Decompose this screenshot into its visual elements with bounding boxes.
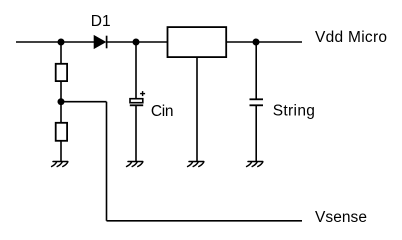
capacitor String bbox=[250, 99, 264, 105]
wire D1 cathode to regulator bbox=[107, 41, 168, 43]
svg-text:D1: D1 bbox=[91, 13, 111, 30]
svg-text:Vsense: Vsense bbox=[315, 209, 367, 226]
node junction divider top bbox=[58, 39, 65, 46]
wire regulator ground pin bbox=[196, 57, 198, 161]
resistor R2 bbox=[56, 123, 67, 141]
ground regulator bbox=[188, 162, 204, 167]
ground String bbox=[247, 162, 263, 167]
svg-text:Cin: Cin bbox=[151, 103, 173, 120]
diode D1 bbox=[94, 36, 106, 49]
capacitor Cin (polarized) bbox=[130, 91, 145, 105]
regulator U1 bbox=[168, 27, 227, 57]
svg-text:Vdd Micro: Vdd Micro bbox=[315, 29, 387, 46]
wire R2 to ground bbox=[60, 141, 62, 162]
svg-text:String: String bbox=[273, 103, 316, 120]
ground Cin bbox=[127, 162, 143, 167]
wire Cin to ground bbox=[135, 105, 137, 161]
wire regulator output bbox=[226, 41, 302, 43]
wire junction to Cin bbox=[135, 42, 137, 99]
wire junction to R1 bbox=[60, 42, 62, 64]
wire R1 to R2 bbox=[60, 81, 62, 123]
wire sense tap horizontal bbox=[61, 101, 107, 103]
node junction String bbox=[253, 39, 260, 46]
wire sense bottom rail bbox=[107, 220, 303, 222]
wire String cap to ground bbox=[255, 105, 257, 161]
node junction Cin bbox=[133, 39, 140, 46]
wire junction to String cap bbox=[255, 42, 257, 99]
node divider tap bbox=[58, 98, 65, 105]
ground divider bbox=[52, 162, 68, 167]
wire input rail bbox=[16, 41, 95, 43]
wire sense vertical bbox=[106, 102, 108, 221]
resistor R1 bbox=[56, 64, 67, 81]
